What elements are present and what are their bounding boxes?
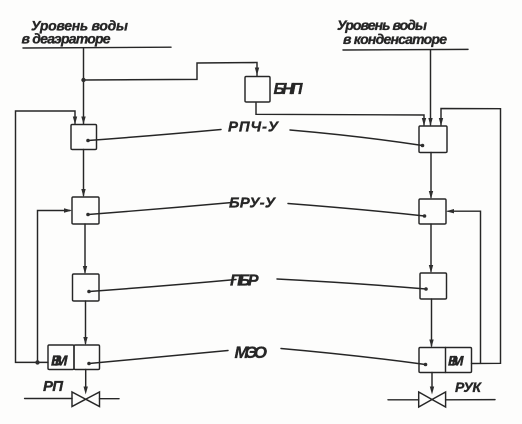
svg-text:БНП: БНП (274, 81, 303, 98)
svg-text:ВМ: ВМ (448, 353, 464, 369)
svg-text:в конденсаторе: в конденсаторе (343, 31, 447, 47)
svg-text:РП: РП (43, 378, 64, 395)
svg-text:в деаэраторе: в деаэраторе (22, 31, 111, 47)
svg-text:ПБР: ПБР (230, 273, 259, 290)
svg-text:РПЧ-У: РПЧ-У (228, 119, 280, 136)
svg-text:МЭО: МЭО (235, 343, 268, 362)
svg-text:ВМ: ВМ (51, 353, 68, 370)
svg-text:РУК: РУК (455, 379, 482, 395)
svg-text:БРУ-У: БРУ-У (229, 195, 277, 212)
